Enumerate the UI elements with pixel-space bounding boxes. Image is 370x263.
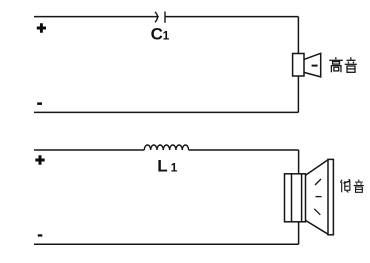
svg-text:1: 1 — [171, 160, 178, 174]
svg-text:1: 1 — [163, 29, 170, 43]
svg-text:C: C — [151, 25, 163, 44]
svg-text:L: L — [157, 156, 167, 175]
